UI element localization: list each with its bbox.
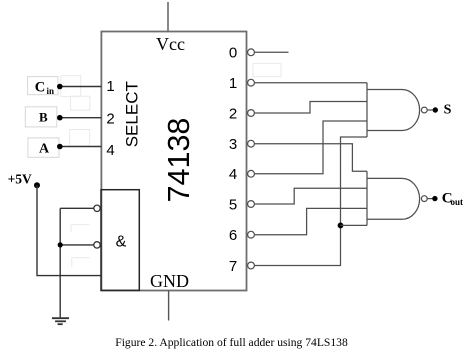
pin 1 bubble (248, 79, 255, 86)
pin 6 bubble (248, 231, 255, 238)
NAND gate G2 body (367, 178, 420, 219)
svg-text:7: 7 (229, 258, 237, 275)
NAND gate G1 (S) back edge (366, 83, 368, 137)
enable gate U2 & box (101, 190, 139, 291)
svg-text:2: 2 (229, 105, 237, 122)
svg-text:out: out (451, 197, 464, 207)
wire pin 4 to gate1 in3 (254, 121, 367, 174)
wire enable input lower (60, 244, 94, 246)
bubble enable upper (94, 205, 100, 211)
wire enable to ground (59, 208, 61, 317)
wire pin 3 to gate2 in1 (254, 144, 367, 172)
pin 4 bubble (248, 170, 255, 177)
svg-text:1: 1 (106, 78, 114, 95)
svg-text:+5V: +5V (8, 171, 32, 186)
wire G2 output (427, 198, 432, 200)
node dot S (433, 107, 438, 112)
NAND gate G2 bubble (421, 196, 427, 202)
node dot Cout (432, 196, 437, 201)
wire enable input upper (60, 207, 94, 209)
svg-text:1: 1 (229, 75, 237, 92)
junction dot enable (58, 242, 63, 247)
svg-text:3: 3 (229, 136, 237, 153)
wire Vcc supply top (167, 2, 169, 32)
node dot Cin (57, 84, 63, 90)
svg-text:Figure 2. Application of full: Figure 2. Application of full adder usin… (115, 336, 348, 349)
wire junction to gate2 in4 (341, 224, 368, 226)
wire Cin to pin 1 (58, 86, 101, 88)
svg-text:6: 6 (229, 227, 237, 244)
wire pin 7 riser to gate1 in4 (254, 137, 367, 266)
node dot B (57, 115, 63, 121)
pin 7 bubble (248, 262, 255, 269)
ghost artifact boxes (faint scan remnants) (61, 63, 281, 267)
node dot +5V (34, 182, 40, 188)
wire G1 output (427, 109, 433, 111)
svg-text:B: B (39, 109, 48, 124)
svg-text:SELECT: SELECT (123, 81, 142, 147)
node dot A (57, 144, 63, 150)
svg-text:GND: GND (150, 271, 189, 291)
svg-text:&: & (116, 234, 127, 251)
input label box B (25, 107, 57, 127)
wire pin 5 to gate2 in2 (254, 188, 367, 204)
wire pin 6 to gate2 in3 (254, 208, 367, 234)
wire pin 1 to gate1 in1 (254, 82, 367, 84)
NAND gate G1 bubble (421, 107, 427, 113)
pin 3 bubble (248, 140, 255, 147)
svg-text:4: 4 (229, 166, 237, 183)
NAND gate G1 body (367, 90, 420, 131)
junction dot pin7 branch (338, 223, 344, 229)
svg-text:S: S (444, 103, 452, 118)
svg-text:C: C (35, 79, 45, 95)
wire +5V down (37, 185, 101, 275)
svg-text:0: 0 (229, 45, 237, 62)
svg-text:74138: 74138 (162, 118, 196, 203)
svg-text:Vcc: Vcc (156, 34, 185, 54)
ground symbol (52, 317, 69, 319)
input label box Cin (28, 77, 58, 95)
pin 0 bubble (248, 49, 255, 56)
NAND gate G2 (Cout) back edge (366, 171, 368, 225)
pin 2 bubble (248, 110, 255, 117)
IC U1 74138 body (101, 32, 246, 291)
pin 5 bubble (248, 201, 255, 208)
svg-text:5: 5 (229, 196, 237, 213)
svg-text:A: A (39, 142, 50, 157)
svg-text:4: 4 (106, 142, 114, 159)
bubble enable lower (94, 242, 100, 248)
wire pin 2 to gate1 in2 (254, 102, 367, 114)
wire A to pin 4 (58, 146, 101, 148)
svg-text:2: 2 (106, 110, 114, 127)
wire B to pin 2 (58, 117, 101, 119)
wire pin 0 stub (254, 51, 288, 53)
wire GND down (168, 291, 170, 321)
svg-text:in: in (47, 86, 55, 96)
input label box A (28, 138, 59, 157)
